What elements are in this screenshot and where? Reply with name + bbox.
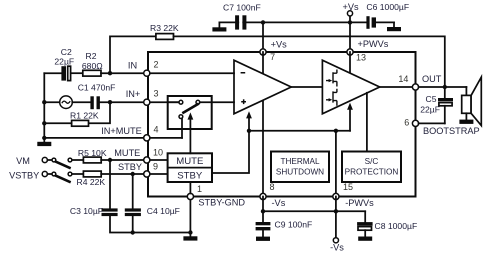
node junction +Vs terminal <box>348 20 352 24</box>
svg-text:10: 10 <box>153 147 163 157</box>
wire source to C1 <box>72 101 90 103</box>
svg-text:3: 3 <box>153 89 158 99</box>
capacitor C9 <box>256 211 271 236</box>
wire C1 to pin 3 <box>100 101 147 103</box>
node junction C9 <box>261 209 265 213</box>
switch S3 (input mute) contacts <box>179 100 200 118</box>
arrow mute control <box>188 112 194 153</box>
wire C4 to rail <box>132 216 134 232</box>
terminal VM <box>42 157 47 162</box>
svg-text:6: 6 <box>404 118 409 128</box>
svg-text:-Vs: -Vs <box>272 198 286 208</box>
resistor R4 <box>83 171 101 177</box>
wire R1 branch <box>89 102 111 123</box>
wire pin15 vertical <box>335 131 337 197</box>
ground input rail <box>37 142 51 146</box>
node junction bias/pin15 <box>334 129 338 133</box>
svg-text:VM: VM <box>16 156 30 166</box>
wire pin3 to switch box <box>150 101 179 103</box>
wire pin10 to mute block <box>150 159 168 161</box>
capacitor C6 <box>366 16 376 29</box>
wire switch to opamp plus <box>200 101 234 103</box>
wire opamp2 out to pin14 <box>380 86 413 88</box>
resistor R3 <box>156 34 174 40</box>
svg-text:OUT: OUT <box>422 74 442 84</box>
ground top-right (C6 ground) <box>387 22 401 31</box>
svg-text:15: 15 <box>343 182 353 192</box>
wire pin2 to opamp minus <box>150 72 234 74</box>
pin 10 <box>144 157 150 163</box>
signal source V1 <box>60 96 73 109</box>
svg-text:4: 4 <box>153 125 158 135</box>
svg-text:STBY-GND: STBY-GND <box>198 198 245 208</box>
wire rail to source <box>44 101 59 103</box>
svg-text:VSTBY: VSTBY <box>9 170 39 180</box>
capacitor C1 <box>90 96 100 109</box>
capacitor C2 <box>61 66 70 80</box>
svg-text:MUTE: MUTE <box>114 148 140 158</box>
svg-text:THERMAL: THERMAL <box>280 157 320 166</box>
svg-text:2: 2 <box>153 59 158 69</box>
node junction pin1 gnd <box>188 230 192 234</box>
node junction rail/pin4 <box>42 136 46 140</box>
wire pin4 into box lower contact <box>181 119 183 138</box>
wire C6 to ground <box>376 21 394 23</box>
svg-text:-PWVs: -PWVs <box>345 198 374 208</box>
node junction C4/rail <box>131 230 135 234</box>
wire pin8 down <box>262 197 264 212</box>
pin 7 <box>260 49 266 55</box>
svg-text:C8 1000µF: C8 1000µF <box>375 221 418 231</box>
speaker LS1 <box>462 77 482 125</box>
capacitor C7 <box>235 14 246 30</box>
svg-text:R5 10K: R5 10K <box>78 148 107 158</box>
svg-text:C9 100nF: C9 100nF <box>275 220 313 230</box>
svg-text:C3 10µF: C3 10µF <box>70 206 103 216</box>
wire pin1 to ground <box>189 197 191 237</box>
mute switch box <box>168 96 212 129</box>
pin 4 <box>144 135 150 141</box>
svg-text:13: 13 <box>356 53 366 63</box>
wire S/C sense <box>366 93 368 152</box>
wire pin15 down <box>335 197 337 212</box>
left input rail <box>43 73 45 142</box>
terminal -Vs bottom <box>333 211 338 243</box>
svg-text:BOOTSTRAP: BOOTSTRAP <box>423 126 480 136</box>
svg-text:IN+: IN+ <box>126 89 141 99</box>
ground speaker <box>459 120 473 124</box>
svg-text:+Vs: +Vs <box>271 40 287 50</box>
svg-text:1: 1 <box>197 184 202 194</box>
wire stby block right to bias line <box>212 131 249 173</box>
wire R2 to pin 2 <box>101 72 147 74</box>
wire OUT line <box>419 86 467 88</box>
svg-text:R3 22K: R3 22K <box>150 23 179 33</box>
wire internal supply pin7-pin8 <box>262 52 264 197</box>
op-amp U1B power stage <box>322 60 379 114</box>
wire bootstrap line <box>419 122 445 124</box>
wire VM to switch <box>47 159 52 161</box>
pin 6 <box>412 120 418 126</box>
wire VSTBY to switch <box>47 173 52 175</box>
wire bias line <box>249 130 350 132</box>
node junction C1/R1 <box>108 100 112 104</box>
block S/C PROTECTION <box>342 152 401 183</box>
pin 2 <box>144 70 150 76</box>
node junction bias/arrow1 <box>247 129 251 133</box>
node junction pin7 top <box>261 20 265 24</box>
arrow into opamp1 <box>246 111 252 131</box>
block MUTE/STBY <box>168 153 212 182</box>
wire pin7 to top rail <box>262 22 264 52</box>
svg-text:C6 1000µF: C6 1000µF <box>366 2 409 12</box>
pin 14 <box>412 84 418 90</box>
svg-text:STBY: STBY <box>177 171 203 182</box>
svg-text:C7 100nF: C7 100nF <box>223 3 261 13</box>
switch S1 (mute) <box>52 158 72 168</box>
wire C3 drop <box>109 160 111 208</box>
svg-text:R2: R2 <box>86 51 97 61</box>
wire +Vs terminal down to pin13 <box>349 22 351 52</box>
block THERMAL SHUTDOWN <box>271 152 329 183</box>
node junction R3/IN <box>108 71 112 75</box>
capacitor C8 <box>357 211 373 236</box>
svg-text:C5: C5 <box>426 94 437 104</box>
wire R4 to pin 9 <box>101 173 146 175</box>
svg-text:C1 470nF: C1 470nF <box>78 83 116 93</box>
svg-text:R4 22K: R4 22K <box>77 177 106 187</box>
wire pin3 into switch box <box>168 101 179 103</box>
svg-text:MUTE: MUTE <box>176 156 203 167</box>
svg-text:22µF: 22µF <box>54 57 74 67</box>
wire C4 drop <box>132 174 134 208</box>
svg-text:14: 14 <box>398 74 408 84</box>
wire stby block to pin1 <box>189 182 191 193</box>
wire top supply rail (+Vs to C7/C6) <box>219 21 366 23</box>
wire -Vs bottom rail <box>263 210 365 212</box>
svg-text:+Vs: +Vs <box>342 2 358 12</box>
svg-text:9: 9 <box>153 161 158 171</box>
svg-text:S/C: S/C <box>365 157 379 166</box>
svg-text:8: 8 <box>269 182 274 192</box>
svg-text:680Ω: 680Ω <box>82 61 103 71</box>
wire feedback R3 line <box>110 36 156 73</box>
terminal VSTBY <box>42 171 47 176</box>
svg-text:R1 22K: R1 22K <box>70 110 99 120</box>
pin 15 <box>333 193 339 199</box>
svg-text:C2: C2 <box>61 47 72 57</box>
node junction rail/source <box>42 100 46 104</box>
ground C9 <box>256 237 270 241</box>
pin 13 <box>347 49 353 55</box>
wire R5 to pin 10 <box>101 159 146 161</box>
pin 1 <box>187 193 193 199</box>
capacitor C3 <box>102 208 118 216</box>
ground C8 <box>358 237 372 241</box>
svg-text:PROTECTION: PROTECTION <box>345 168 399 177</box>
wire R1 to rail <box>44 122 71 124</box>
node junction C4/stby line <box>131 172 135 176</box>
resistor R5 <box>83 157 101 163</box>
svg-text:SHUTDOWN: SHUTDOWN <box>276 168 324 177</box>
svg-text:-Vs: -Vs <box>330 242 344 252</box>
pin 9 <box>144 171 150 177</box>
arrow into opamp2 <box>347 103 353 131</box>
node junction rail/R1 <box>42 121 46 125</box>
svg-text:IN+MUTE: IN+MUTE <box>101 126 142 136</box>
wire internal pin13 down <box>349 52 351 74</box>
wire pin9 to stby block <box>150 173 168 175</box>
wire IN line left rail corner <box>44 72 61 74</box>
wire opamp1 out to opamp2 <box>291 86 322 88</box>
node junction OUT/C5 <box>443 85 447 89</box>
wire pin 4 line <box>44 137 146 139</box>
wire pin4 inside <box>150 137 182 139</box>
ground stby-gnd <box>183 236 197 240</box>
capacitor C4 <box>125 208 141 216</box>
pin 3 <box>144 99 150 105</box>
svg-text:IN: IN <box>128 61 137 71</box>
op-amp U1A input stage <box>234 60 291 114</box>
resistor R2 <box>83 70 101 76</box>
svg-text:+PWVs: +PWVs <box>358 39 389 49</box>
switch S2 (standby) <box>52 172 72 182</box>
svg-text:22µF: 22µF <box>420 104 440 114</box>
wire R3 to OUT <box>174 36 445 87</box>
IC outline U1 <box>148 52 416 197</box>
ground top-left (C7 ground) <box>212 22 226 31</box>
capacitor C5 <box>438 87 453 123</box>
svg-text:7: 7 <box>270 52 275 62</box>
node junction -Vs terminal <box>334 209 338 213</box>
wire switch to R4 <box>72 173 84 175</box>
svg-text:STBY: STBY <box>118 162 142 172</box>
wire switch to R5 <box>72 159 84 161</box>
svg-text:C4 10µF: C4 10µF <box>147 206 180 216</box>
wire C3/C4 bottom rail <box>110 216 190 232</box>
node junction C3/mute line <box>108 158 112 162</box>
terminal +Vs <box>347 11 352 23</box>
pin 8 <box>260 193 266 199</box>
wire C2 to R2 <box>71 72 83 74</box>
resistor R1 <box>72 120 89 126</box>
